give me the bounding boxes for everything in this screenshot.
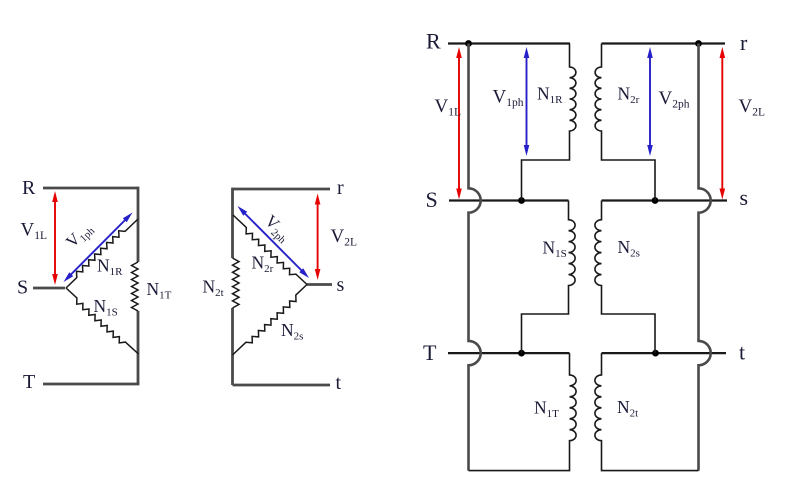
svg-text:S: S xyxy=(426,187,438,212)
winding N1R xyxy=(522,44,576,201)
winding N2s diagonal xyxy=(233,285,308,356)
junction dot on s bus xyxy=(652,197,659,204)
wire right phase vertical with hops xyxy=(699,44,711,471)
arrow V1L (red, schematic) xyxy=(458,55,460,192)
winding N1T xyxy=(469,353,577,471)
junction dot on S bus xyxy=(518,197,525,204)
wire T bus xyxy=(448,352,570,354)
svg-text:r: r xyxy=(740,30,748,55)
winding N2s xyxy=(595,201,655,354)
wire right vertical (diagram 1) xyxy=(137,187,140,384)
wire t bus xyxy=(602,352,727,354)
arrow V2L (red, diagram 2) xyxy=(317,201,319,272)
winding N1R diagonal xyxy=(66,219,138,288)
arrow V2ph (blue, schematic) xyxy=(649,55,651,149)
arrow V2ph (blue, diagram 2) xyxy=(243,212,304,273)
winding N2r diagonal xyxy=(233,215,307,285)
wire T bottom line xyxy=(43,383,139,386)
svg-text:t: t xyxy=(739,340,745,365)
svg-text:R: R xyxy=(426,29,441,54)
arrow V1ph (blue, diagram 1) xyxy=(69,218,127,277)
wire S bus xyxy=(449,199,569,201)
winding N1T zigzag xyxy=(132,262,139,311)
svg-text:T: T xyxy=(23,371,35,393)
wire left vertical (diagram 2) xyxy=(231,188,234,385)
wire r top line xyxy=(233,188,331,191)
svg-text:t: t xyxy=(336,372,342,394)
svg-text:r: r xyxy=(337,177,344,199)
wire R bus xyxy=(448,42,570,44)
winding N1S xyxy=(522,201,576,354)
wire t bottom line xyxy=(233,384,331,387)
wire r bus xyxy=(602,42,726,44)
junction dot on t bus xyxy=(652,350,659,357)
svg-text:T: T xyxy=(423,340,437,365)
arrow V1ph (blue, schematic) xyxy=(526,55,528,149)
svg-text:S: S xyxy=(17,277,28,299)
svg-text:s: s xyxy=(740,185,749,210)
winding N2t zigzag xyxy=(233,258,240,308)
junction dot on r bus xyxy=(695,40,702,47)
winding N2r xyxy=(595,44,655,201)
arrow V2L (red, schematic) xyxy=(721,55,723,192)
winding N1S diagonal xyxy=(66,288,139,354)
wire s bus xyxy=(602,199,728,201)
wire left phase vertical with hops xyxy=(469,44,481,471)
arrow V1L (red, diagram 1) xyxy=(54,199,56,278)
winding N2t xyxy=(595,353,699,471)
wire R top line xyxy=(43,187,138,190)
junction dot on R bus xyxy=(465,40,472,47)
junction dot on T bus xyxy=(518,350,525,357)
svg-text:R: R xyxy=(22,177,36,199)
wire S stub xyxy=(33,287,65,290)
svg-text:s: s xyxy=(337,274,345,296)
wire s stub xyxy=(307,283,332,286)
